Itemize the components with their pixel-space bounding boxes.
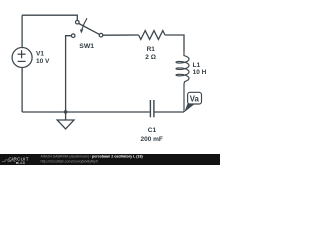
switch left contact xyxy=(71,34,75,38)
wire switch to resistor xyxy=(103,34,139,36)
svg-text:Va: Va xyxy=(190,95,200,104)
footer bar xyxy=(0,154,220,165)
svg-text:200 mF: 200 mF xyxy=(141,136,163,143)
logo circuitlab xyxy=(8,156,28,165)
svg-text:L1: L1 xyxy=(193,62,201,69)
svg-text:SW1: SW1 xyxy=(79,43,94,50)
svg-text:V1: V1 xyxy=(36,51,44,58)
wire switch left stub xyxy=(66,36,72,112)
svg-text:2 Ω: 2 Ω xyxy=(145,54,156,61)
wire resistor to right corner xyxy=(165,35,184,52)
switch SW1 blade xyxy=(79,24,99,35)
wire top rail xyxy=(22,15,77,20)
svg-text:AINUN SABRINA (aisabrinain) /: AINUN SABRINA (aisabrinain) / percobaan … xyxy=(41,155,144,159)
svg-text:10 V: 10 V xyxy=(36,58,50,65)
wire left branch upper xyxy=(21,15,23,47)
svg-text:C1: C1 xyxy=(148,127,157,134)
logo squiggle xyxy=(2,160,16,162)
inductor L1 xyxy=(176,52,189,113)
voltage source V1 xyxy=(12,48,32,68)
wire bottom rail left xyxy=(22,111,150,113)
switch arrow xyxy=(82,18,87,30)
svg-text:R1: R1 xyxy=(147,46,156,53)
junction ground node xyxy=(64,110,68,114)
capacitor C1 xyxy=(150,100,154,117)
wire bottom rail right xyxy=(154,111,184,113)
switch right contact xyxy=(99,33,103,37)
switch top contact xyxy=(76,20,80,24)
node Va flag pointer xyxy=(184,104,195,113)
ground xyxy=(57,112,74,129)
svg-text:10 H: 10 H xyxy=(193,69,207,76)
wire left branch lower xyxy=(21,68,23,113)
svg-text:http://circuitlab.com/c/cwq6vk: http://circuitlab.com/c/cwq6vk8yf6y5 xyxy=(41,159,98,163)
resistor R1 xyxy=(139,31,165,40)
svg-text:■LAB: ■LAB xyxy=(16,161,26,165)
